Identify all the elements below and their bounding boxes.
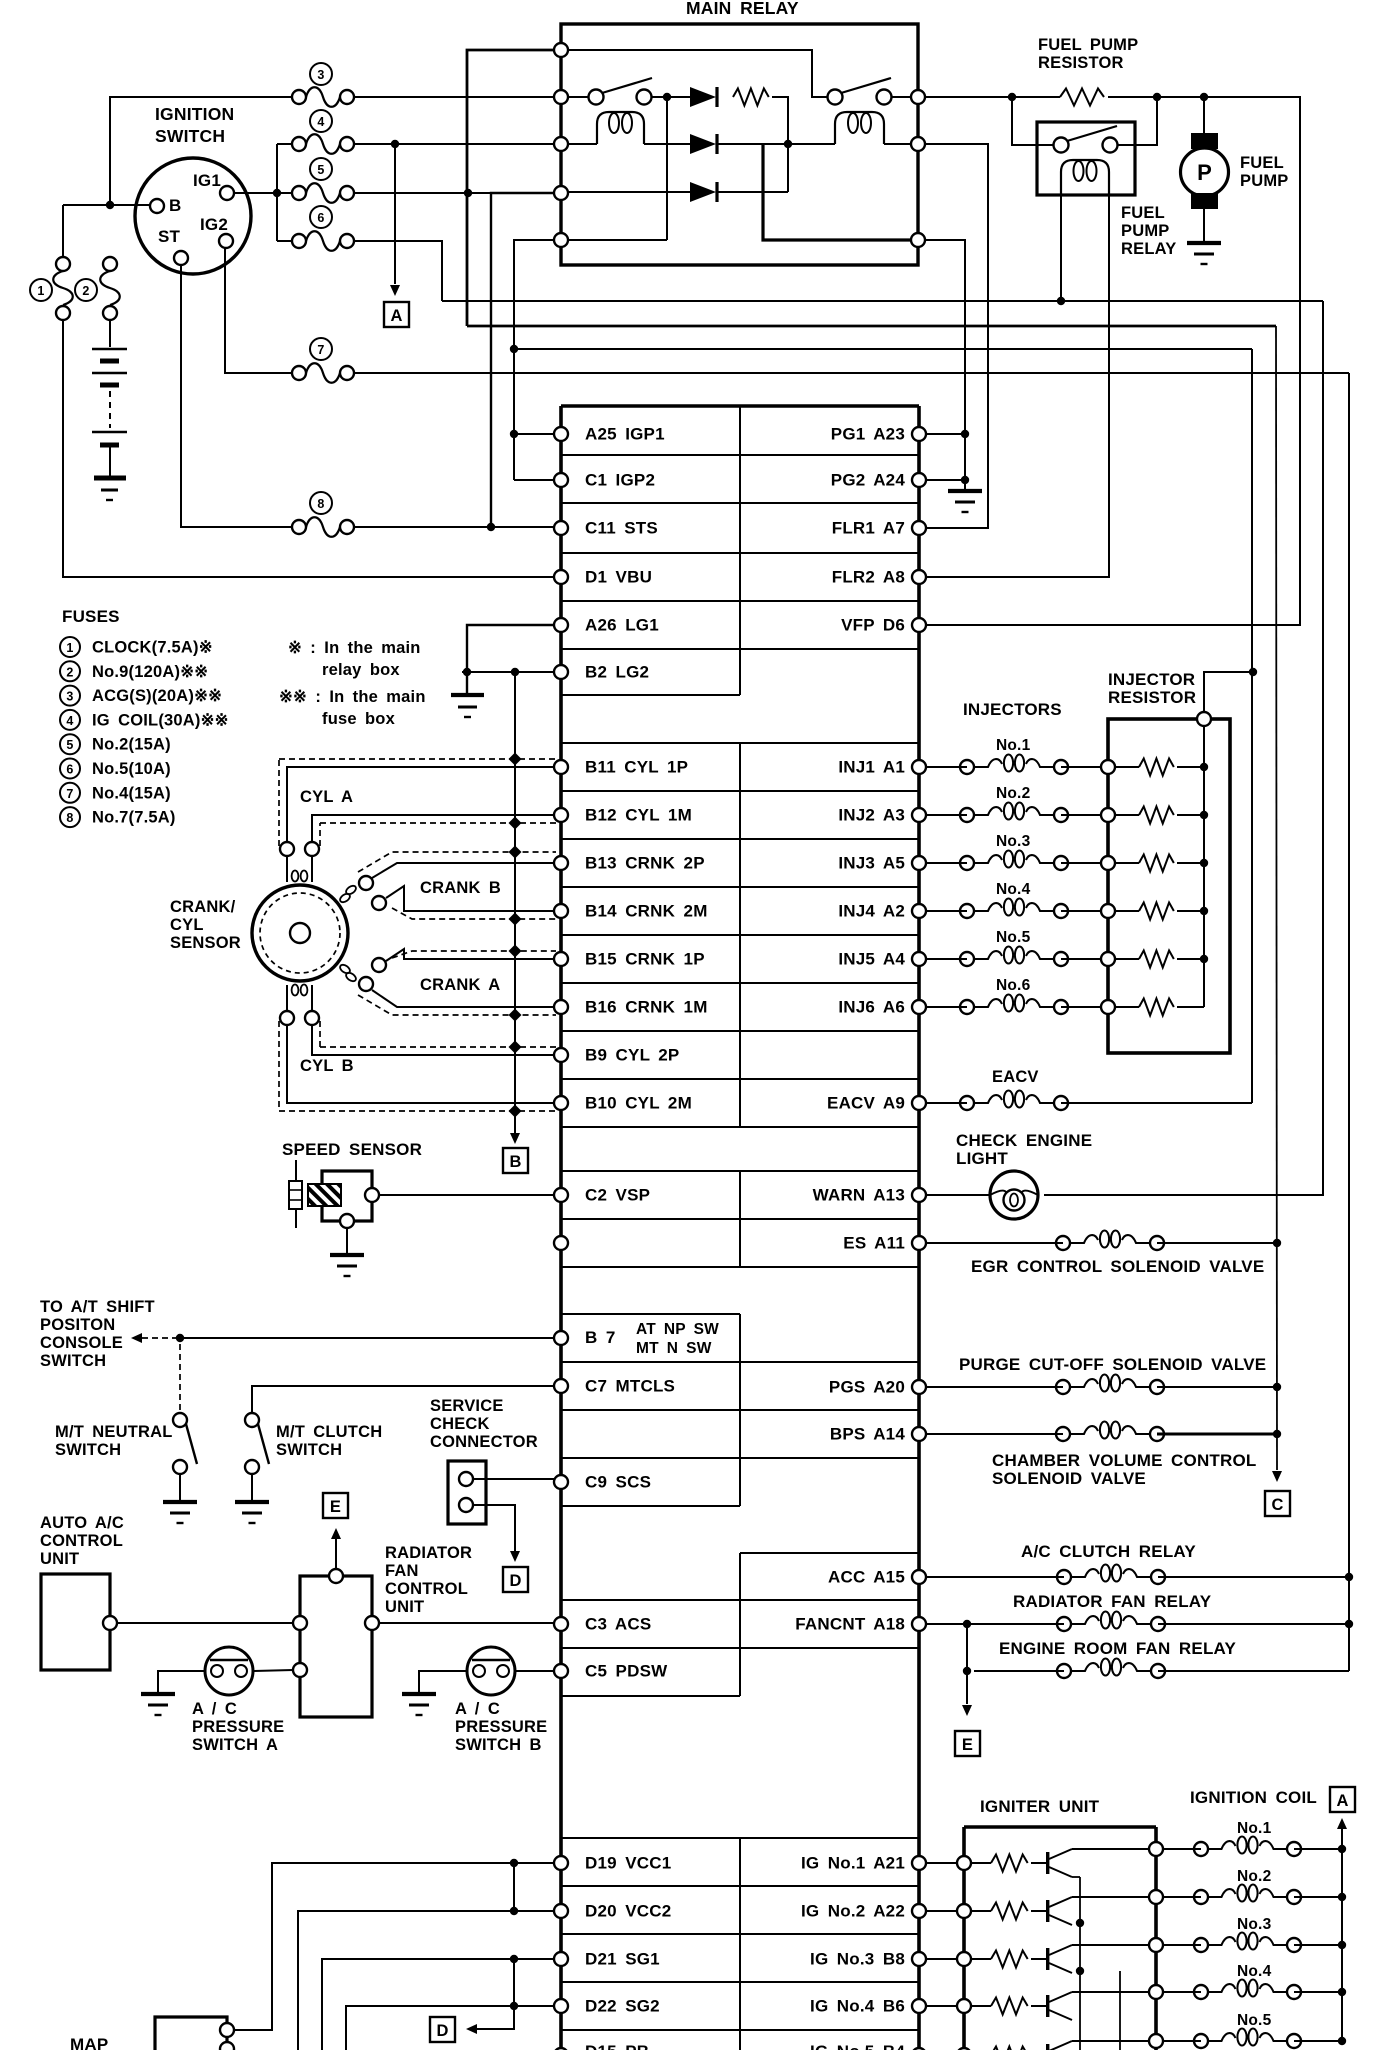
ECU pin BPS A14 [830, 1425, 926, 1444]
igniter transistor No.1 [1031, 1849, 1072, 1877]
svg-text:CYL A: CYL A [300, 788, 353, 806]
ECU pin IG No.4 B6 [810, 1997, 926, 2016]
wire fuse1 to D1 VBU long vertical [63, 320, 554, 577]
injector resistor box [1108, 719, 1230, 1053]
igniter output terminal No.5 [1149, 2034, 1163, 2048]
svg-text:No.4: No.4 [1237, 1963, 1272, 1980]
ignition coil No.1 [1163, 1820, 1301, 1856]
svg-text:B9 CYL 2P: B9 CYL 2P [585, 1046, 679, 1065]
wire CYL A P [287, 767, 554, 842]
wire SG link [513, 1959, 515, 2006]
node coil bus No.2 [1338, 1893, 1346, 1901]
injector resistor top terminal [1197, 712, 1211, 726]
fuse riser IG1 vertical [276, 144, 278, 241]
ECU pin FLR1 A7 [832, 519, 926, 538]
igniter input No.1 [957, 1856, 971, 1870]
igniter transistor No.5 [1031, 2041, 1072, 2050]
svg-text:MAIN RELAY: MAIN RELAY [686, 0, 799, 18]
svg-text:CHAMBER VOLUME CONTROL: CHAMBER VOLUME CONTROL [992, 1451, 1257, 1470]
wire LG ground stem [466, 672, 468, 693]
svg-text:6: 6 [66, 763, 73, 777]
svg-text:IG1: IG1 [193, 171, 221, 190]
svg-text:B12 CYL 1M: B12 CYL 1M [585, 806, 692, 825]
ECU pin D1 VBU [554, 568, 652, 587]
ECU pin 2055 [912, 2048, 926, 2050]
fuse list item 1 [60, 637, 80, 657]
svg-text:8: 8 [317, 497, 324, 511]
arrow to E upper [331, 1528, 341, 1539]
wire D21 run [322, 1959, 554, 2050]
wire chamber to C net [1157, 1433, 1277, 1436]
igniter input No.2 [957, 1904, 971, 1918]
svg-text:8: 8 [66, 811, 73, 825]
fuel pump relay label [1121, 204, 1176, 258]
wire purge to C net [1157, 1386, 1277, 1388]
main relay terminal 2 [554, 90, 568, 104]
node clutch relay junction [1345, 1573, 1353, 1581]
label to A/T shift [40, 1298, 155, 1370]
wire to B7 pin [180, 1337, 554, 1339]
svg-text:1: 1 [37, 284, 44, 298]
fuse 5 [292, 158, 354, 203]
igniter collector out No.4 [1072, 1991, 1149, 1993]
A/C pressure switch B [467, 1647, 515, 1695]
radiator fan relay coil [925, 1612, 1165, 1632]
wire diode3 in [568, 191, 690, 193]
ECU pin FLR2 A8 [832, 568, 926, 587]
EACV coil [925, 1091, 1068, 1111]
ECU pin C9 SCS [554, 1473, 651, 1492]
ignition coil No.5 [1163, 2012, 1301, 2048]
svg-text:※※ : In the main: ※※ : In the main [279, 688, 426, 706]
chamber coil [925, 1422, 1164, 1442]
node resistor feed [1249, 668, 1257, 676]
MAP sensor box [155, 2017, 227, 2050]
wire coil A in [568, 143, 597, 145]
node VCC junction 1 [510, 1859, 518, 1867]
speed sensor body [308, 1171, 372, 1221]
ECU pin PGS A20 [829, 1378, 926, 1397]
node IGP feed [510, 345, 518, 353]
node coil bus No.5 [1338, 2037, 1346, 2045]
vertical to bottom terminal [666, 97, 668, 240]
svg-text:PUMP: PUMP [1240, 172, 1288, 190]
svg-text:EGR CONTROL SOLENOID VALVE: EGR CONTROL SOLENOID VALVE [971, 1257, 1264, 1276]
ECU pin B14 CRNK 2M [554, 902, 708, 921]
svg-text:D19 VCC1: D19 VCC1 [585, 1854, 671, 1873]
svg-text:INJECTORS: INJECTORS [963, 700, 1062, 719]
svg-text:relay box: relay box [322, 661, 400, 679]
node FANCNT junction [963, 1620, 971, 1628]
svg-text:3: 3 [66, 690, 73, 704]
node coil to y301 [1057, 297, 1065, 305]
main relay right terminal 2 [911, 137, 925, 151]
igniter resistor No.1 [971, 1855, 1028, 1872]
ECU pin C2 VSP [554, 1186, 650, 1205]
fuse 7 [292, 338, 354, 383]
wire VCC link [513, 1863, 515, 1911]
wire fan unit to E [335, 1539, 337, 1569]
svg-text:FLR1 A7: FLR1 A7 [832, 519, 905, 538]
node B2 shield branch [511, 668, 519, 676]
coil A main relay [597, 112, 644, 144]
svg-text:SOLENOID VALVE: SOLENOID VALVE [992, 1469, 1146, 1488]
wire ECU to igniter No.3 [925, 1958, 957, 1960]
wire CYL B P [312, 1025, 554, 1055]
chamber label [992, 1451, 1257, 1488]
svg-text:4: 4 [66, 714, 73, 728]
injector No.2 [925, 785, 1101, 822]
coil B main relay [835, 112, 884, 144]
wire resistor to riser [772, 97, 788, 192]
fuel pump relay switch [1054, 126, 1118, 153]
ECU right column dividers [740, 455, 919, 2030]
switch B contacts [828, 78, 892, 105]
injector resistor label [1108, 670, 1196, 707]
ECU pin 2055 [554, 2048, 568, 2050]
svg-text:INJ5 A4: INJ5 A4 [838, 950, 905, 969]
wire pump relay coil left lead [1060, 195, 1062, 301]
ECU pin EACV A9 [827, 1094, 926, 1113]
svg-text:FUEL: FUEL [1240, 154, 1284, 172]
igniter output terminal No.1 [1149, 1842, 1163, 1856]
A/C clutch relay coil [925, 1565, 1165, 1585]
wire ST to fuse 8 [181, 265, 291, 527]
main relay top internal wire [568, 50, 827, 97]
wire relay to FLR1 [925, 144, 988, 528]
dashed wire to MT neutral switch [179, 1344, 181, 1412]
svg-text:A / C: A / C [192, 1700, 237, 1718]
crank B coil [339, 876, 386, 910]
MAP sensor pin 2 [220, 2042, 234, 2050]
crank A coil [339, 958, 386, 991]
svg-text:ST: ST [158, 227, 181, 246]
svg-text:MAP: MAP [70, 2035, 108, 2050]
shield bus vertical B net [514, 672, 516, 1133]
fuel pump relay box [1037, 122, 1135, 195]
node junction fuse2 top [106, 201, 114, 209]
diode D3 main relay [690, 182, 716, 202]
ref box D bottom [430, 2017, 455, 2042]
svg-text:SWITCH: SWITCH [155, 126, 225, 146]
ECU pin FANCNT A18 [795, 1615, 926, 1634]
wire B2 LG2 ground [462, 671, 554, 673]
node resistor bus No.5 [1200, 955, 1208, 963]
wire fuse5 to main relay [355, 192, 554, 194]
ignition switch terminal IG2 [200, 215, 233, 248]
svg-text:FUEL PUMP: FUEL PUMP [1038, 36, 1138, 54]
wire long run y326 [467, 325, 1276, 328]
ignition coil No.2 [1163, 1868, 1301, 1904]
svg-text:E: E [962, 1736, 973, 1754]
svg-text:INJ4 A2: INJ4 A2 [838, 902, 905, 921]
node shield junction 759 [508, 752, 521, 765]
igniter resistor No.4 [971, 1998, 1028, 2015]
svg-text:ES A11: ES A11 [843, 1234, 905, 1253]
injector No.6 [925, 977, 1101, 1014]
node shield junction 1111 [508, 1104, 521, 1117]
svg-text:A25 IGP1: A25 IGP1 [585, 425, 665, 444]
node resistor bus No.3 [1200, 859, 1208, 867]
MT clutch ground [235, 1500, 269, 1504]
injector resistor No.1 [1101, 759, 1204, 776]
wire long run y301 [442, 300, 1323, 302]
ECU pin IG No.3 B8 [810, 1950, 926, 1969]
crank cyl sensor body [252, 885, 348, 981]
wire ECU to igniter No.4 [925, 2005, 957, 2007]
svg-text:C11 STS: C11 STS [585, 519, 658, 538]
node VCC junction 2 [510, 1907, 518, 1915]
svg-text:IG No.4 B6: IG No.4 B6 [810, 1997, 905, 2016]
wire switch A out [652, 96, 690, 98]
node pump relay switch out [1153, 93, 1161, 101]
svg-text:B15 CRNK 1P: B15 CRNK 1P [585, 950, 705, 969]
MT neutral switch [173, 1413, 197, 1474]
wire fuse3 feed riser [110, 97, 291, 205]
node chamber junction [1273, 1430, 1281, 1438]
wire coil to bus No.2 [1294, 1896, 1342, 1898]
ECU pin ACC A15 [828, 1568, 926, 1587]
igniter output terminal No.4 [1149, 1985, 1163, 1999]
svg-text:SPEED SENSOR: SPEED SENSOR [282, 1140, 422, 1159]
wire switch A to fan unit [253, 1670, 293, 1671]
svg-text:B14 CRNK 2M: B14 CRNK 2M [585, 902, 708, 921]
svg-text:IG No.2 A22: IG No.2 A22 [801, 1902, 905, 1921]
injector No.3 [925, 833, 1101, 870]
purge coil [925, 1375, 1164, 1395]
wire C-net vertical [1276, 326, 1277, 1470]
wire pump relay switch out riser [1118, 97, 1157, 145]
cyl sensor top coil [280, 842, 319, 882]
node shield junction 823 [508, 816, 521, 829]
svg-text:SWITCH: SWITCH [276, 1441, 342, 1459]
auto A/C terminal [103, 1616, 117, 1630]
wire to C1 IGP2 [514, 479, 554, 481]
svg-text:PG2 A24: PG2 A24 [831, 471, 906, 490]
svg-text:UNIT: UNIT [40, 1550, 79, 1568]
ignition switch terminal IG1 [193, 171, 234, 200]
main relay box [561, 24, 918, 265]
igniter input No.5 [957, 2048, 971, 2050]
injector resistor No.2 [1101, 807, 1204, 824]
PG ground symbol [948, 489, 982, 493]
wire speed sensor to C2 VSP [379, 1194, 554, 1196]
svg-text:IGNITION COIL: IGNITION COIL [1190, 1788, 1317, 1807]
wire fuse7 long run to AC relays [355, 372, 1349, 374]
svg-text:IG COIL(30A)※※: IG COIL(30A)※※ [92, 711, 229, 729]
ECU pin B13 CRNK 2P [554, 854, 705, 873]
igniter unit box [964, 1827, 1156, 2050]
fuse 8 [292, 492, 354, 537]
fuel pump relay coil [1061, 160, 1109, 195]
node coil bus No.4 [1338, 1988, 1346, 1996]
igniter emitter chain 2 [1119, 1971, 1121, 2050]
switch B ground [402, 1692, 436, 1696]
ECU pin B12 CYL 1M [554, 806, 692, 825]
svg-text:CRANK/: CRANK/ [170, 898, 236, 916]
diode D2 main relay [690, 134, 716, 154]
svg-text:2: 2 [66, 665, 73, 679]
svg-text:FUEL: FUEL [1121, 204, 1165, 222]
svg-text:C3 ACS: C3 ACS [585, 1615, 651, 1634]
svg-text:No.7(7.5A): No.7(7.5A) [92, 809, 176, 827]
auto A/C label [40, 1514, 124, 1568]
node fuel pump feed [1200, 93, 1208, 101]
fuel pump motor [1181, 133, 1229, 209]
svg-text:SENSOR: SENSOR [170, 934, 241, 952]
check engine light lamp [990, 1171, 1038, 1219]
igniter emitter chain [1072, 1877, 1084, 2050]
svg-text:CONTROL: CONTROL [40, 1532, 123, 1550]
fuse list item 5 [60, 734, 80, 754]
svg-text:PG1 A23: PG1 A23 [831, 425, 905, 444]
wire fuse2 to battery [109, 320, 111, 347]
wire fan unit to C3 ACS [379, 1622, 554, 1624]
fuse 3 [292, 63, 354, 107]
injector resistor No.4 [1101, 903, 1204, 920]
shield CYL A outer [278, 759, 280, 846]
fuse note 1 [288, 639, 421, 679]
svg-text:PRESSURE: PRESSURE [455, 1718, 547, 1736]
diode D1 main relay [690, 87, 716, 107]
svg-text:M/T NEUTRAL: M/T NEUTRAL [55, 1423, 173, 1441]
wire resistor box feed [1204, 672, 1253, 712]
wire CYL A M [312, 815, 554, 842]
svg-text:D1 VBU: D1 VBU [585, 568, 652, 587]
fuse list item 8 [60, 807, 80, 827]
MT neutral switch label [55, 1423, 173, 1459]
svg-text:No.6: No.6 [996, 977, 1031, 994]
wire ECU to igniter No.2 [925, 1910, 957, 1912]
ECU pin D22 SG2 [554, 1997, 660, 2016]
fuse 1 branch corner [62, 205, 64, 258]
ECU pin PG2 A24 [831, 471, 926, 490]
shield CRANK B inner [392, 908, 556, 919]
svg-text:B13 CRNK 2P: B13 CRNK 2P [585, 854, 705, 873]
svg-text:CRANK A: CRANK A [420, 976, 500, 994]
ECU pin B15 CRNK 1P [554, 950, 705, 969]
auto A/C control unit box [41, 1574, 110, 1670]
wire clutch relay to IG2 net [1158, 1576, 1349, 1578]
speed sensor terminal gnd [340, 1214, 354, 1228]
ignition coil No.4 [1163, 1963, 1301, 1999]
wire MT clutch ground stem [251, 1474, 253, 1500]
node EGR junction [1273, 1239, 1281, 1247]
svg-text:SWITCH B: SWITCH B [455, 1736, 542, 1754]
svg-text:PURGE CUT-OFF SOLENOID VALVE: PURGE CUT-OFF SOLENOID VALVE [959, 1355, 1266, 1374]
node A25 feed [510, 430, 518, 438]
svg-text:C7 MTCLS: C7 MTCLS [585, 1377, 675, 1396]
svg-text:FAN: FAN [385, 1562, 419, 1580]
MAP sensor pin 1 [220, 2023, 234, 2037]
svg-text:CONNECTOR: CONNECTOR [430, 1433, 538, 1451]
wire bottom terminal [568, 239, 667, 241]
wire IG1 to fuse junction [235, 192, 291, 194]
ECU pin D19 VCC1 [554, 1854, 671, 1873]
svg-text:PGS A20: PGS A20 [829, 1378, 905, 1397]
ref box E upper [323, 1493, 348, 1518]
ECU pin B2 LG2 [554, 663, 649, 682]
svg-text:SWITCH: SWITCH [40, 1352, 106, 1370]
injector No.4 [925, 881, 1101, 918]
svg-text:UNIT: UNIT [385, 1598, 424, 1616]
ECU middle divider [739, 406, 741, 2050]
wire IG2 net vertical [1348, 373, 1350, 1671]
svg-text:A / C: A / C [455, 1700, 500, 1718]
ECU pin ES A11 [843, 1234, 926, 1253]
node resistor bus No.2 [1200, 811, 1208, 819]
ECU left edge [559, 406, 563, 2050]
node A branch [391, 140, 399, 148]
wire auto A/C to fan unit [117, 1622, 293, 1624]
wire MT neutral ground stem [179, 1474, 181, 1500]
fan unit terminal right [365, 1616, 379, 1630]
svg-text:B11 CYL 1P: B11 CYL 1P [585, 758, 688, 777]
fuse 2 [75, 257, 120, 320]
svg-text:VFP D6: VFP D6 [841, 616, 905, 635]
ref box D [503, 1567, 528, 1592]
svg-text:INJ1 A1: INJ1 A1 [838, 758, 905, 777]
node resistor bus No.1 [1200, 763, 1208, 771]
svg-text:ENGINE ROOM FAN RELAY: ENGINE ROOM FAN RELAY [999, 1639, 1236, 1658]
wire pump to ground [1203, 209, 1205, 241]
igniter input No.4 [957, 1999, 971, 2013]
svg-text:FANCNT A18: FANCNT A18 [795, 1615, 905, 1634]
svg-text:B2 LG2: B2 LG2 [585, 663, 649, 682]
svg-text:3: 3 [317, 68, 324, 82]
node fuel pump relay feed [1008, 93, 1016, 101]
MT clutch switch [245, 1413, 269, 1474]
svg-text:C5 PDSW: C5 PDSW [585, 1662, 668, 1681]
svg-text:SWITCH A: SWITCH A [192, 1736, 278, 1754]
svg-text:AT NP SW: AT NP SW [636, 1321, 719, 1338]
wire fuse4 to main relay [355, 143, 554, 145]
svg-text:CONTROL: CONTROL [385, 1580, 468, 1598]
svg-text:B: B [509, 1153, 521, 1171]
wire switch B out [891, 96, 911, 98]
svg-text:No.2: No.2 [996, 785, 1030, 802]
svg-text:POSITON: POSITON [40, 1316, 115, 1334]
switch A ground [141, 1692, 175, 1696]
svg-text:C2 VSP: C2 VSP [585, 1186, 650, 1205]
wire lamp net vertical [1044, 301, 1323, 1195]
ECU top edge [561, 404, 919, 408]
igniter resistor No.5 [971, 2047, 1028, 2050]
wire CRANK A P [386, 949, 554, 961]
injector No.1 [925, 737, 1101, 774]
node PG1 junction [961, 430, 969, 438]
wire switch A in [568, 96, 588, 98]
wire relay term1 branch [467, 50, 554, 326]
arrow to E lower [962, 1705, 972, 1716]
ECU pin D20 VCC2 [554, 1902, 671, 1921]
svg-text:D21 SG1: D21 SG1 [585, 1950, 660, 1969]
wire CRANK B M [386, 886, 554, 911]
shield CYL B outer [278, 1021, 280, 1111]
ECU pin INJ6 A6 [838, 998, 926, 1017]
svg-text:No.5: No.5 [996, 929, 1031, 946]
svg-text:IG No.5 B4: IG No.5 B4 [810, 2042, 905, 2050]
engine room fan relay coil [974, 1659, 1165, 1679]
main relay terminal 3 [554, 137, 568, 151]
svg-text:A: A [1336, 1792, 1348, 1810]
shield CRANK B outer [358, 852, 556, 872]
node engine fan junction [963, 1667, 971, 1675]
ECU left column dividers [561, 455, 740, 2030]
svg-text:E: E [330, 1498, 341, 1516]
wire MAP to D19 [225, 1863, 554, 2030]
ECU pin B9 CYL 2P [554, 1046, 679, 1065]
